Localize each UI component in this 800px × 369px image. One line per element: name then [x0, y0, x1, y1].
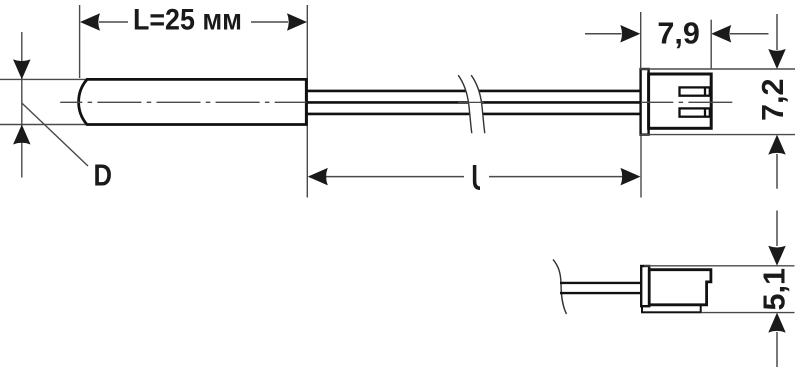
- dimension L=25 mm : line and arrows: [80, 13, 307, 31]
- break curve right: [471, 75, 485, 133]
- extension line 7,2 bottom: [640, 134, 795, 136]
- extension line 7,2 top: [640, 68, 795, 70]
- wire bottom edge: [306, 113, 641, 116]
- extension line 7,9 right: [710, 20, 712, 69]
- dimension 7,2 : vertical lines and outside arrows: [768, 14, 786, 189]
- extension line left of probe bottom (D dim): [0, 124, 87, 126]
- lower view: connector flange (side): [641, 266, 649, 306]
- lower view: connector body (side) with notch: [649, 270, 711, 305]
- wire break gap (white): [458, 75, 485, 133]
- extension line below connector (l dim): [640, 135, 642, 198]
- connector flange (top view): [641, 69, 649, 135]
- extension line left of probe top (D dim): [0, 78, 87, 80]
- dimension l : line and arrows: [308, 168, 641, 186]
- lower view: wire top edge: [560, 282, 642, 284]
- lower view: wire break curve: [553, 260, 567, 315]
- probe body (sensor sleeve): [79, 79, 307, 124]
- svg-text:D: D: [94, 157, 113, 192]
- extension line 5,1 bottom: [701, 312, 795, 314]
- extension line L left: [79, 5, 81, 78]
- dimension D : vertical line and arrows: [13, 32, 31, 178]
- svg-text:5,1: 5,1: [758, 268, 792, 311]
- connector pin slot 1: [680, 87, 710, 95]
- dimension text l (curved lowercase l): [475, 165, 480, 188]
- leader line to D: [22, 103, 88, 166]
- connector pin slot 2: [680, 108, 710, 116]
- extension line 7,9 left: [640, 12, 642, 69]
- centerline dash in break gap: [458, 101, 484, 103]
- centerline (dash-dot axis): [60, 101, 732, 103]
- break curve left: [458, 75, 472, 133]
- lower view: wire bottom edge: [560, 292, 642, 294]
- svg-text:7,2: 7,2: [756, 79, 790, 122]
- wire middle edge: [306, 101, 641, 104]
- dimension 7,9 : lines and outside arrows: [585, 25, 769, 43]
- extension line 5,1 top: [644, 265, 795, 267]
- extension line right of probe (shared L / l): [306, 5, 308, 198]
- svg-text:L=25 мм: L=25 мм: [133, 3, 242, 36]
- wire top edge: [306, 90, 641, 93]
- connector body (top view): [649, 74, 712, 128]
- lower view: bottom latch plate: [642, 305, 701, 312]
- svg-text:7,9: 7,9: [657, 17, 700, 51]
- dimension 5,1 : vertical lines and outside arrows: [768, 211, 786, 368]
